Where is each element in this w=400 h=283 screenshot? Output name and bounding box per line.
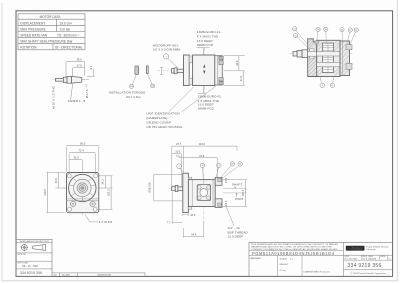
shaft nut	[174, 68, 177, 74]
svg-text:M 10 X 1.5 THD: M 10 X 1.5 THD	[51, 85, 55, 109]
cover bolt top	[346, 45, 352, 50]
svg-text:DD-MM: DD-MM	[62, 275, 70, 277]
dimension 38.0	[66, 61, 85, 76]
balloon 1B leader	[147, 74, 152, 84]
svg-text:7.4: 7.4	[176, 154, 180, 158]
port horizontal centerline	[194, 192, 214, 194]
left extension lines	[47, 173, 66, 213]
idler shaft through gears	[317, 62, 340, 66]
balloon 20	[316, 27, 320, 31]
balloon 1A leader	[132, 75, 136, 85]
cross-section view	[289, 27, 358, 88]
svg-text:7.7: 7.7	[167, 221, 171, 225]
mount hole right	[90, 201, 95, 206]
woodruff leader	[168, 59, 177, 68]
svg-text:BI - DIRECTIONAL: BI - DIRECTIONAL	[55, 46, 83, 50]
balloon 1A	[130, 84, 134, 88]
flange upper boss	[188, 177, 191, 184]
svg-text:PORT: PORT	[235, 197, 244, 201]
svg-text:DATE: DATE	[381, 255, 386, 258]
svg-text:72.4: 72.4	[78, 149, 84, 153]
balloon 27	[348, 28, 352, 32]
woodruff balloon	[164, 54, 169, 59]
balloon 1B	[151, 84, 155, 88]
projection circle symbol	[21, 245, 27, 251]
parker logo	[346, 246, 365, 251]
shaft centerline	[158, 70, 187, 72]
mounting flange section	[308, 39, 321, 77]
title block	[249, 242, 393, 276]
svg-text:44.5: 44.5	[235, 60, 239, 66]
shaft center	[81, 186, 85, 190]
taper phantom line	[82, 78, 89, 81]
balloon 1B	[230, 162, 234, 166]
svg-text:DISPLACEMENT: DISPLACEMENT	[20, 21, 45, 25]
gear housing section	[317, 40, 340, 76]
svg-text:PGM511A0190BS1D4NJ5J5B1B1G4: PGM511A0190BS1D4NJ5J5B1B1G4	[252, 251, 335, 256]
shaft centerline	[289, 53, 353, 55]
unit identification note	[146, 112, 183, 130]
shaft body	[302, 50, 308, 58]
shaft bore	[79, 185, 86, 192]
flange body	[67, 173, 99, 213]
svg-text:34.4: 34.4	[191, 232, 197, 236]
port centerline extension	[223, 192, 247, 194]
svg-text:36.5: 36.5	[73, 155, 79, 159]
balloon 4	[320, 83, 324, 87]
dimension 72.4	[69, 152, 95, 154]
svg-text:MAX PRESSURE: MAX PRESSURE	[20, 27, 45, 31]
svg-text:NOT DRCTWB: NOT DRCTWB	[345, 259, 358, 261]
svg-text:MAX SHAFT SEAL PRESSURE 2: MAX SHAFT SEAL PRESSURE 2	[20, 40, 68, 44]
flange hatch	[308, 39, 321, 76]
dimension 10.5	[183, 210, 189, 216]
svg-text:MOTOR DATA: MOTOR DATA	[40, 15, 62, 19]
boss ring	[74, 179, 92, 197]
block outline	[249, 242, 393, 276]
shaft detail view	[51, 58, 94, 109]
svg-text:WEIGHT: WEIGHT	[280, 264, 289, 266]
corner hole BL	[68, 207, 72, 211]
option row	[16, 252, 52, 254]
dimension 34.4	[183, 221, 204, 238]
port stud bottom 1	[219, 78, 223, 81]
bottom side view	[148, 142, 249, 238]
balloon 2	[217, 163, 221, 167]
svg-text:41.5: 41.5	[239, 75, 243, 81]
shaft rod	[177, 69, 183, 72]
cover seam	[212, 180, 214, 207]
port centerline vertical	[203, 162, 205, 220]
dimension 79.8	[183, 157, 217, 159]
dimension 7.7	[172, 192, 182, 224]
svg-text:13MM EURO-FL.: 13MM EURO-FL.	[197, 30, 222, 34]
dimension 50.0	[67, 145, 99, 147]
svg-text:DIMCNTB: DIMCNTB	[368, 259, 377, 261]
parker logo cell divider	[344, 254, 393, 256]
svg-text:79.8: 79.8	[199, 154, 205, 158]
gear stack	[323, 43, 334, 73]
shaft tip	[172, 69, 175, 73]
dimension 10.1	[172, 153, 182, 155]
top dims extension lines	[172, 146, 237, 186]
svg-text:mm: mm	[53, 275, 57, 277]
flow arrow down	[203, 71, 205, 74]
port stud top 2	[219, 61, 223, 65]
housing hatch corners	[317, 41, 339, 76]
svg-text:INSTALLATION TORQUE: INSTALLATION TORQUE	[109, 91, 146, 95]
test row	[16, 260, 52, 262]
flange lower boss	[189, 78, 192, 84]
hub circle	[77, 183, 87, 193]
washer stack dimension	[160, 68, 163, 75]
svg-text:15.5: 15.5	[224, 177, 228, 183]
balloon 24	[294, 33, 298, 37]
shaft rod	[178, 187, 183, 191]
balloon 25	[340, 28, 344, 32]
right extension lines	[224, 56, 245, 86]
svg-text:10.1: 10.1	[175, 150, 181, 154]
page left edge	[1, 3, 3, 281]
shaft through flange	[308, 51, 317, 56]
svg-text:38.0: 38.0	[76, 58, 82, 62]
end cover section	[340, 41, 350, 76]
flange joint line 2	[67, 200, 99, 202]
cover hatch	[341, 41, 349, 75]
svg-text:210 bar: 210 bar	[60, 27, 72, 31]
top side view of pump	[146, 30, 245, 129]
drive shaft tip	[293, 51, 297, 56]
svg-text:Ø36.5 f8: Ø36.5 f8	[148, 182, 152, 193]
svg-text:Pump & Motor Division: Pump & Motor Division	[366, 246, 389, 249]
rear port boss top	[215, 177, 222, 185]
gear housing body	[188, 180, 215, 207]
svg-text:39MM FCD: 39MM FCD	[197, 43, 214, 47]
svg-text:102.3: 102.3	[107, 189, 111, 196]
page bottom edge	[2, 280, 397, 282]
corner hole TR	[94, 174, 98, 178]
notes divider	[249, 250, 344, 252]
taper label leader	[71, 84, 73, 99]
shaft taper section	[72, 76, 82, 83]
port seal top	[315, 41, 319, 44]
shaft threaded end	[56, 78, 64, 81]
boss top bolt	[218, 178, 222, 181]
svg-text:9.1: 9.1	[89, 65, 93, 69]
shaft nut	[135, 66, 139, 75]
svg-text:17.9: 17.9	[77, 63, 83, 67]
svg-text:—Parker: —Parker	[347, 247, 363, 251]
flange upper boss	[189, 56, 192, 63]
svg-text:09 - 11 - 500: 09 - 11 - 500	[22, 264, 38, 268]
port stud top 1	[219, 56, 223, 59]
top note underline	[197, 47, 210, 49]
dimension 44.5 vertical	[58, 173, 60, 189]
shaft collar	[297, 50, 302, 57]
svg-text:4 X Ø 8.8: 4 X Ø 8.8	[99, 220, 113, 224]
svg-text:OR ON GEAR HOUSING: OR ON GEAR HOUSING	[146, 125, 183, 129]
dimension 100.3 vertical	[245, 180, 247, 207]
svg-text:C1: C1	[388, 259, 390, 261]
dimension 44.5	[238, 56, 240, 71]
svg-text:Ø17.5 ⁻⁰·ⁱ: Ø17.5 ⁻⁰·ⁱ	[84, 83, 89, 98]
exploded nut and washer	[109, 66, 164, 99]
corner hole BR	[93, 207, 97, 211]
balloon 29	[354, 28, 358, 32]
flange joint line 1	[67, 198, 99, 200]
port centerline vertical	[203, 48, 205, 93]
vertical centerline	[81, 169, 83, 217]
svg-text:OPTION: OPTION	[17, 254, 26, 256]
port bore	[200, 189, 208, 197]
dimension 118.5 vertical	[47, 173, 49, 213]
svg-text:12.0 DEEP: 12.0 DEEP	[228, 234, 244, 238]
gear housing body	[193, 55, 215, 86]
casting spokes	[69, 178, 96, 202]
svg-text:4.1 kg: 4.1 kg	[280, 270, 287, 272]
cover seam	[216, 56, 218, 85]
svg-text:MATERIAL: MATERIAL	[250, 257, 262, 260]
unit id leader 2	[182, 86, 216, 112]
svg-text:44.5: 44.5	[54, 177, 58, 183]
shaft centerline	[169, 188, 186, 190]
svg-text:118.5: 118.5	[43, 189, 47, 196]
svg-text:3000 min⁻¹: 3000 min⁻¹	[64, 34, 80, 38]
cover inner seam	[342, 41, 344, 76]
bottom note leader	[203, 86, 205, 93]
corner hole TL	[67, 174, 71, 178]
housing seam	[191, 180, 193, 207]
gear teeth lines	[323, 43, 334, 73]
svg-text:34.3: 34.3	[101, 179, 105, 185]
left cells dividers	[277, 256, 279, 277]
svg-text:SHAFT: SHAFT	[232, 183, 242, 187]
svg-text:ON END COVER: ON END COVER	[146, 121, 171, 125]
rear port boss bottom	[215, 199, 222, 208]
svg-text:39MM FCD: 39MM FCD	[198, 107, 215, 111]
washer	[147, 66, 149, 74]
svg-text:3.0 X 5.0 DIN 6888: 3.0 X 5.0 DIN 6888	[153, 48, 181, 52]
table outline	[16, 239, 52, 276]
svg-text:50.0: 50.0	[80, 142, 86, 146]
svg-text:Chemnitz: Chemnitz	[366, 248, 375, 251]
balloon 1A	[238, 162, 242, 166]
svg-text:DIMENSIONED IN mm: DIMENSIONED IN mm	[304, 271, 327, 273]
boss bottom bolt	[218, 203, 222, 206]
page right edge	[396, 0, 398, 281]
svg-text:TO: TO	[57, 34, 62, 38]
idler centerline	[312, 64, 353, 66]
shaft seal	[310, 49, 314, 59]
svg-text:DIMENSIONS: DIMENSIONS	[97, 275, 111, 277]
dimension 36.5	[69, 158, 82, 160]
unit id leader 1	[169, 87, 194, 112]
top port note	[197, 30, 222, 47]
balloon 1	[177, 164, 182, 169]
drive shaft through gears	[317, 52, 340, 56]
balloon 30	[324, 27, 328, 31]
dimension 116.0	[183, 145, 237, 147]
MOTOR DATA table text	[20, 15, 83, 50]
pilot diameter dim	[153, 174, 183, 201]
svg-text:334 9219 356: 334 9219 356	[20, 271, 42, 275]
header row dividers	[344, 255, 393, 260]
dimension 102.3 vertical	[110, 176, 112, 210]
svg-text:ROTATION: ROTATION	[20, 46, 37, 50]
svg-text:SPEED RATE MIN: SPEED RATE MIN	[20, 34, 47, 38]
MOTOR DATA table	[18, 14, 85, 50]
pilot boss outer circle	[69, 174, 96, 201]
shaft centerline	[53, 79, 91, 81]
front flange view	[43, 142, 113, 224]
projection cone symbol	[33, 245, 46, 251]
number row	[16, 268, 52, 270]
bolt hole label leader	[85, 215, 98, 222]
dimension 41.5	[242, 71, 244, 86]
dimension 9.1 vertical	[87, 69, 95, 77]
svg-text:(NAMEPLATE) :: (NAMEPLATE) :	[146, 116, 169, 120]
BSP port note	[228, 226, 249, 238]
port stud bottom 2	[219, 82, 223, 85]
mount hole left	[70, 201, 75, 206]
svg-text:- mm: - mm	[325, 271, 330, 273]
svg-text:UNIT IDENTIFICATION: UNIT IDENTIFICATION	[146, 112, 180, 116]
svg-text:19.0 cm³: 19.0 cm³	[60, 21, 72, 25]
BSP note leader	[226, 206, 234, 226]
balloon 35	[330, 83, 334, 87]
svg-text:334 9219 356: 334 9219 356	[347, 263, 381, 269]
svg-text:10.5: 10.5	[190, 213, 196, 217]
port bolt holes	[197, 186, 201, 190]
bottom port note	[198, 95, 223, 111]
svg-text:20 ± 3 Nm: 20 ± 3 Nm	[126, 95, 141, 99]
header row tiny labels	[345, 255, 391, 260]
right extension lines	[98, 176, 113, 210]
balloon 22	[293, 27, 297, 31]
projection table	[16, 239, 145, 276]
side port face	[197, 185, 210, 201]
top dims extension lines	[67, 147, 99, 174]
svg-text:15.5: 15.5	[224, 200, 228, 206]
mount hole crosshairs	[70, 200, 97, 207]
shaft step 1	[63, 77, 67, 82]
right extension lines	[223, 180, 248, 207]
shaft step	[175, 185, 178, 191]
shaft tip	[172, 186, 176, 190]
svg-text:116.0: 116.0	[199, 142, 206, 146]
balloon 4	[200, 163, 204, 167]
dimension 34.3 vertical	[104, 176, 106, 188]
notes small text	[251, 243, 338, 251]
shaft centerline extension	[223, 187, 247, 189]
svg-text:- - -: - - -	[252, 270, 256, 272]
cover bolt bottom	[346, 63, 352, 69]
bottom port note overline	[198, 93, 206, 95]
woodruff key callout	[153, 43, 181, 67]
mounting flange plate	[184, 55, 190, 86]
mounting flange plate	[183, 173, 189, 212]
svg-text:SCALE: SCALE	[280, 258, 288, 261]
svg-text:27.7: 27.7	[176, 142, 182, 146]
horizontal centerline	[63, 187, 102, 189]
dimension 27.7	[172, 145, 184, 147]
dimension 17.9	[73, 67, 85, 76]
bottom strip	[52, 273, 145, 277]
top note leader	[203, 48, 205, 55]
shaft step 2	[67, 76, 72, 83]
svg-text:TAPER 1 : 8: TAPER 1 : 8	[68, 99, 86, 103]
flange lower boss	[188, 201, 191, 209]
end cover	[215, 56, 223, 85]
dimension 7.4	[179, 157, 184, 159]
flow arrow up	[203, 64, 205, 67]
